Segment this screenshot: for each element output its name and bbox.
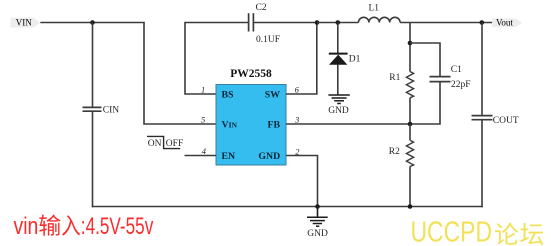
svg-text:2: 2 [295, 146, 300, 156]
wire BS loop top [185, 23, 249, 95]
junction node R1/C1 [408, 41, 413, 46]
wire top rail to R1 [409, 23, 411, 72]
svg-text:22pF: 22pF [451, 80, 471, 90]
svg-text:0.1UF: 0.1UF [256, 35, 280, 45]
wire L1 to Vout node [400, 22, 492, 24]
svg-text:GND: GND [328, 106, 349, 116]
svg-text:GND: GND [307, 229, 328, 239]
svg-text:BS: BS [222, 90, 235, 101]
wire R2 to ground rail [409, 167, 411, 207]
svg-text:VIN: VIN [16, 18, 32, 28]
svg-text::4.5V-55v: :4.5V-55v [81, 213, 154, 240]
svg-text:D1: D1 [349, 54, 361, 64]
svg-text:R1: R1 [389, 73, 400, 83]
svg-text:R2: R2 [389, 147, 400, 157]
wire SW node to L1 [317, 22, 359, 24]
capacitor COUT [472, 116, 493, 120]
wire D1 branch [337, 23, 339, 54]
diode D1 [329, 54, 348, 65]
svg-text:vin: vin [14, 213, 39, 240]
svg-text:C2: C2 [256, 3, 267, 13]
wire ground rail [92, 206, 483, 208]
svg-text:FB: FB [267, 120, 280, 131]
wire Vout node to COUT [481, 23, 483, 116]
wire COUT to ground rail [481, 120, 483, 208]
svg-text:6: 6 [295, 84, 300, 94]
on/off annotation [147, 136, 183, 149]
junction node SW [315, 20, 320, 25]
resistor R1 [406, 72, 413, 98]
capacitor CIN [83, 107, 102, 111]
wire C1 branch [410, 43, 440, 76]
wire C1 to FB [286, 82, 440, 124]
capacitor C2 [249, 13, 254, 31]
svg-text:L1: L1 [369, 4, 380, 14]
op-amp/regulator U1 PW2558 body [216, 85, 286, 166]
net flag Vout [492, 18, 522, 28]
junction node R2/ground [408, 204, 413, 209]
wire VIN rail [40, 22, 145, 24]
ground symbol at D1 [328, 95, 349, 104]
svg-text:EN: EN [222, 151, 236, 162]
svg-text:PW2558: PW2558 [230, 68, 272, 80]
svg-text:5: 5 [201, 115, 205, 125]
svg-text:SW: SW [265, 90, 280, 101]
wire EN stub [185, 155, 217, 157]
wire VIN to pin 5 [144, 23, 216, 125]
wire R1 to FB node [409, 98, 411, 124]
wire FB node to R2 [409, 124, 411, 140]
svg-text:C1: C1 [451, 65, 462, 75]
junction node VIN/CIN [90, 20, 95, 25]
net flag VIN [11, 18, 41, 28]
wire CIN branch [92, 23, 94, 108]
resistor R2 [406, 140, 413, 166]
svg-text:COUT: COUT [493, 116, 519, 126]
svg-text:Vout: Vout [496, 18, 513, 28]
svg-text:ON: ON [148, 139, 162, 149]
svg-text:UCCPD: UCCPD [411, 216, 493, 246]
junction node Vout [480, 20, 485, 25]
svg-text:GND: GND [258, 151, 280, 162]
annotation vin input range (red) [14, 213, 154, 240]
junction node D1 [336, 20, 341, 25]
watermark UCCPD forum (yellow) [411, 216, 544, 246]
wire D1 anode to ground [337, 65, 339, 96]
svg-text:1: 1 [201, 85, 205, 95]
ground symbol main [307, 207, 328, 227]
svg-text:OFF: OFF [166, 139, 183, 149]
inductor L1 [359, 17, 401, 22]
wire SW pin to top rail [286, 23, 317, 95]
wire C2 to SW node [253, 22, 317, 24]
svg-text:3: 3 [294, 115, 299, 125]
svg-text:CIN: CIN [103, 106, 120, 116]
wire CIN to ground rail [92, 111, 94, 207]
svg-text:VIN: VIN [222, 120, 238, 131]
wire GND pin 2 to ground rail [286, 156, 318, 207]
capacitor C1 [430, 77, 451, 82]
junction node IC ground [315, 204, 320, 209]
junction node FB [408, 122, 413, 127]
